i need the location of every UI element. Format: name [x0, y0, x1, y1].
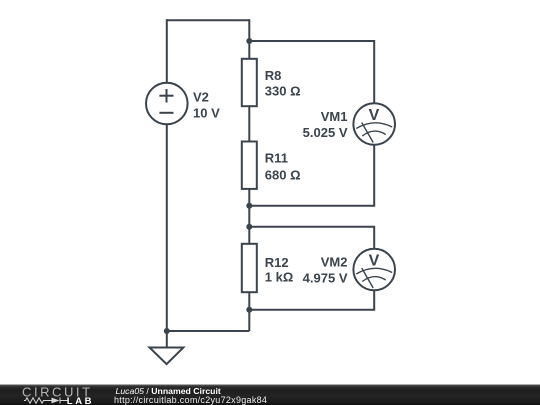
footer bar	[0, 384, 540, 385]
svg-text:VM2: VM2	[321, 255, 348, 270]
wire R8 to R11	[248, 106, 250, 141]
junction node E	[164, 328, 170, 334]
resistor R12	[242, 244, 257, 292]
voltmeter VM2	[353, 249, 395, 291]
svg-text:1 kΩ: 1 kΩ	[265, 270, 294, 285]
svg-text:LAB: LAB	[67, 396, 94, 405]
svg-text:V2: V2	[193, 90, 209, 105]
wire node C to VM2 top	[249, 227, 374, 249]
wire ground stem	[166, 331, 168, 348]
svg-text:R8: R8	[265, 68, 282, 83]
wire node A to VM1 top	[249, 41, 374, 103]
svg-text:680 Ω: 680 Ω	[265, 167, 301, 182]
svg-text:R11: R11	[265, 151, 288, 166]
svg-text:V: V	[369, 107, 380, 124]
label plot url	[114, 395, 267, 405]
voltage source V2	[146, 83, 188, 125]
wire VM1 bottom to node B	[249, 145, 374, 206]
svg-text:10 V: 10 V	[193, 105, 220, 120]
wire middle vertical to R8	[248, 19, 250, 59]
logo CircuitLab	[0, 384, 110, 405]
svg-text:R12: R12	[265, 255, 289, 270]
svg-text:V: V	[369, 253, 380, 270]
wire bottom horizontal	[167, 330, 250, 332]
svg-text:4.975 V: 4.975 V	[303, 270, 348, 285]
ground	[150, 348, 184, 365]
voltmeter VM1	[353, 103, 395, 145]
junction node A	[246, 38, 252, 44]
svg-text:330 Ω: 330 Ω	[265, 84, 301, 99]
wire left vertical upper	[166, 19, 168, 83]
resistor R8	[242, 59, 257, 106]
label plot title	[116, 386, 221, 396]
wire below R12	[248, 292, 250, 331]
wire R11 to R12	[248, 189, 250, 244]
wire left vertical lower	[166, 125, 168, 332]
svg-text:VM1: VM1	[321, 109, 348, 124]
junction node B	[246, 203, 252, 209]
junction node D	[246, 307, 252, 313]
svg-text:5.025 V: 5.025 V	[303, 125, 348, 140]
resistor R11	[242, 142, 257, 189]
wire top-left horizontal	[167, 19, 250, 21]
junction node C	[246, 224, 252, 230]
wire VM2 bottom to node D	[249, 291, 374, 310]
